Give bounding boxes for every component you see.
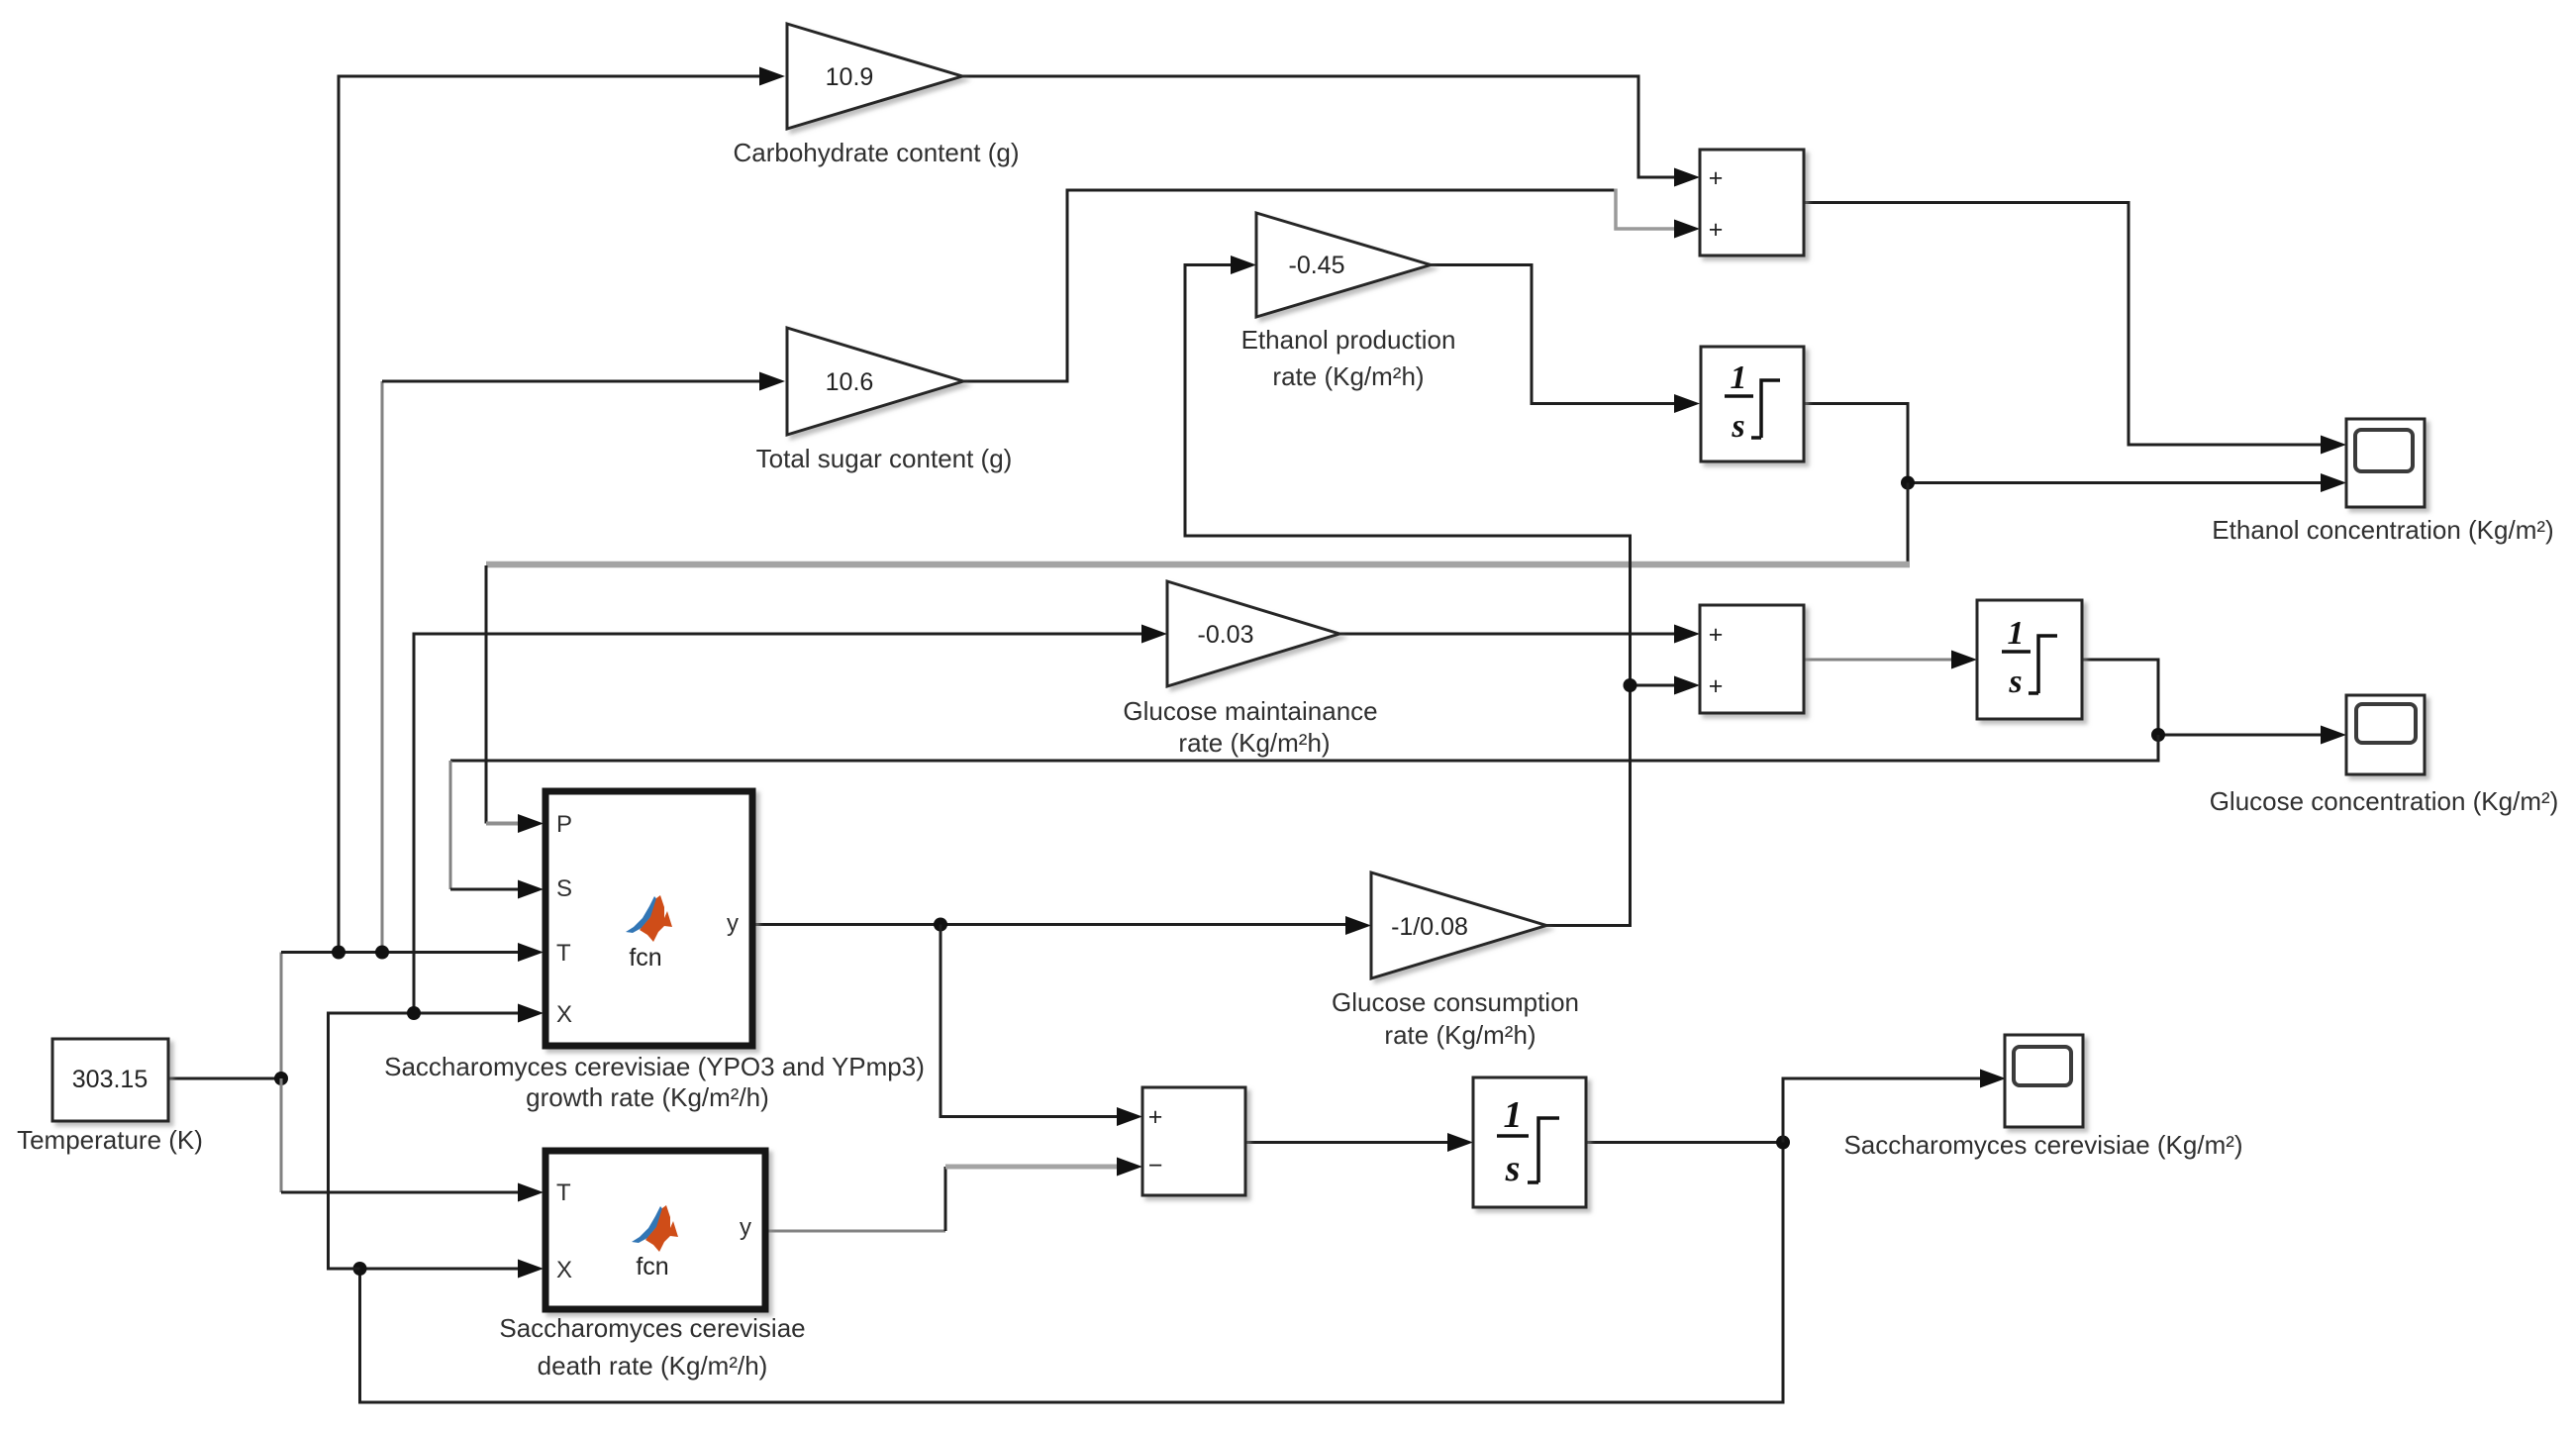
- svg-text:y: y: [740, 1214, 751, 1241]
- svg-text:Total sugar content (g): Total sugar content (g): [756, 444, 1013, 473]
- svg-text:-1/0.08: -1/0.08: [1391, 913, 1468, 941]
- node junction X net: [353, 1262, 367, 1276]
- arrow into Scope1 input1: [2321, 436, 2346, 455]
- svg-text:fcn: fcn: [636, 1253, 668, 1280]
- svg-text:Saccharomyces cerevisiae: Saccharomyces cerevisiae: [499, 1313, 805, 1343]
- wire Integrator1 output to Scope1 input2: [1804, 404, 2321, 483]
- wire Sum2 output to Integrator2: [1804, 659, 1951, 662]
- wire T up to gain 10.9 input: [339, 76, 759, 953]
- scope SC3 saccharomyces: [2005, 1035, 2083, 1127]
- wire fcn2 y output to Sum3 minus: [765, 1230, 945, 1233]
- svg-text:Saccharomyces cerevisiae (YPO3: Saccharomyces cerevisiae (YPO3 and YPmp3…: [384, 1052, 925, 1081]
- node T junction at constant output: [274, 1072, 288, 1085]
- gain 10.6 Total sugar content: [787, 328, 963, 435]
- svg-text:fcn: fcn: [629, 944, 661, 972]
- wire to Sum2 input2: [1631, 684, 1675, 687]
- svg-text:10.6: 10.6: [826, 368, 874, 396]
- svg-text:1: 1: [1731, 359, 1747, 396]
- arrow into -0.03: [1141, 625, 1167, 644]
- svg-text:+: +: [1148, 1103, 1163, 1131]
- node junction X/-0.03: [407, 1006, 421, 1020]
- arrow into gain 10.6: [759, 372, 785, 391]
- wire Integrator2 output to Scope3: [2082, 660, 2321, 735]
- svg-text:+: +: [1709, 164, 1724, 192]
- node junction T/10.6: [375, 946, 389, 960]
- wire Sum3 output to Integrator3: [1245, 1141, 1447, 1144]
- svg-text:S: S: [556, 875, 572, 902]
- matlab logo U1: [626, 895, 672, 942]
- svg-text:1: 1: [2008, 615, 2025, 652]
- svg-text:Carbohydrate content (g): Carbohydrate content (g): [733, 138, 1019, 167]
- wire gain 10.9 output to Sum1 input1: [962, 76, 1674, 177]
- wire junction X to fcn2 X: [360, 1268, 519, 1271]
- svg-text:10.9: 10.9: [826, 63, 874, 91]
- svg-text:s: s: [1731, 408, 1744, 445]
- svg-text:T: T: [556, 940, 571, 967]
- wire Sum1 output to Scope1 input1: [1804, 203, 2321, 446]
- arrow into gain 10.9: [759, 67, 785, 86]
- sum S2 (glucose): [1700, 605, 1804, 713]
- scope SC2 glucose: [2346, 695, 2425, 774]
- integrator I3 (biomass): [1473, 1077, 1586, 1207]
- fcn block U1 growth rate: [545, 791, 752, 1046]
- arrow into -1/0.08: [1345, 916, 1371, 935]
- svg-text:s: s: [2008, 664, 2022, 700]
- svg-text:Glucose concentration (Kg/m²): Glucose concentration (Kg/m²): [2210, 786, 2559, 816]
- svg-text:P: P: [556, 811, 572, 838]
- node junction T/10.9: [332, 946, 346, 960]
- wire X feedback from integrator3 junction down and left: [360, 1143, 1784, 1403]
- node junction glucose concentration: [2151, 728, 2165, 742]
- wire ethanol feedback to fcn1 P: [1907, 483, 1910, 563]
- scope SC1 ethanol: [2346, 419, 2425, 507]
- wire -0.03 output to Sum2 input1: [1339, 633, 1674, 636]
- svg-text:T: T: [556, 1179, 571, 1206]
- arrow into Scope3: [2321, 726, 2346, 745]
- svg-text:rate (Kg/m²h): rate (Kg/m²h): [1384, 1020, 1536, 1050]
- arrow into Sum2 input1: [1674, 625, 1700, 644]
- arrow into Integrator2: [1951, 651, 1977, 669]
- arrow into Scope1 input2: [2321, 473, 2346, 492]
- svg-text:s: s: [1505, 1148, 1521, 1189]
- svg-text:Glucose maintainance: Glucose maintainance: [1123, 696, 1377, 726]
- svg-text:Temperature (K): Temperature (K): [17, 1125, 203, 1155]
- matlab logo U2: [632, 1205, 678, 1252]
- svg-text:rate (Kg/m²h): rate (Kg/m²h): [1272, 361, 1424, 391]
- wire growth rate down to Sum3 plus: [941, 925, 1117, 1117]
- svg-text:Ethanol concentration (Kg/m²): Ethanol concentration (Kg/m²): [2212, 515, 2553, 545]
- wire T up to gain 10.6 input: [381, 381, 384, 953]
- svg-text:growth rate (Kg/m²/h): growth rate (Kg/m²/h): [526, 1082, 769, 1112]
- svg-text:X: X: [556, 1257, 572, 1283]
- svg-text:death rate (Kg/m²/h): death rate (Kg/m²/h): [538, 1351, 768, 1381]
- gain -1/0.08 Glucose consumption rate: [1371, 872, 1546, 978]
- arrow into -0.45: [1231, 256, 1256, 274]
- arrow into Scope4: [1980, 1070, 2006, 1088]
- wire gain 10.6 output up and over to Sum1 input2: [963, 190, 1616, 381]
- arrow into fcn1 S: [518, 880, 544, 899]
- fcn block U2 death rate: [545, 1151, 765, 1309]
- arrow into fcn2 X: [518, 1260, 544, 1279]
- wire T main: constant to junction: [168, 1077, 281, 1080]
- arrow into Sum3 plus: [1117, 1107, 1142, 1126]
- node junction consumption/Sum2: [1624, 678, 1637, 692]
- arrow into fcn2 T: [518, 1183, 544, 1202]
- svg-text:+: +: [1709, 216, 1724, 244]
- sum S3 (biomass): [1142, 1087, 1245, 1195]
- arrow into fcn1 T: [518, 943, 544, 962]
- arrow into fcn1 X: [518, 1004, 544, 1023]
- svg-text:-0.03: -0.03: [1198, 621, 1254, 649]
- wire X to fcn1 X: [329, 1013, 519, 1269]
- gain 10.9 Carbohydrate content: [787, 24, 962, 129]
- arrow into Sum1 input1: [1674, 168, 1700, 187]
- svg-text:Saccharomyces cerevisiae (Kg/m: Saccharomyces cerevisiae (Kg/m²): [1843, 1130, 2242, 1160]
- arrow into Integrator1: [1674, 394, 1700, 413]
- svg-text:Glucose consumption: Glucose consumption: [1332, 987, 1579, 1017]
- svg-text:-0.45: -0.45: [1289, 252, 1345, 279]
- svg-text:−: −: [1148, 1152, 1163, 1179]
- node junction saccharomyces: [1776, 1136, 1790, 1150]
- sum S1 (ethanol): [1700, 150, 1804, 256]
- arrow into Sum2 input2: [1674, 676, 1700, 695]
- arrow into Sum1 input2: [1674, 220, 1700, 239]
- node junction ethanol concentration: [1901, 476, 1915, 490]
- svg-text:1: 1: [1504, 1094, 1523, 1136]
- integrator I1 (ethanol): [1701, 347, 1804, 461]
- wire Integrator3 output to junction: [1586, 1141, 1783, 1144]
- integrator I2 (glucose): [1977, 600, 2082, 719]
- wire junction up to Scope4: [1783, 1078, 1980, 1143]
- svg-text:+: +: [1709, 621, 1724, 649]
- wire glucose consumption: -1/0.08 output up to corner: [1185, 265, 1631, 926]
- wire T down to fcn2 T: [280, 1078, 283, 1192]
- wire X up to -0.03 gain input: [414, 634, 1141, 1013]
- svg-text:303.15: 303.15: [72, 1066, 148, 1093]
- node junction growth rate: [934, 918, 947, 932]
- arrow into Sum3 minus: [1117, 1158, 1142, 1177]
- svg-text:y: y: [727, 910, 739, 937]
- constant 303.15 Temperature: [52, 1039, 168, 1121]
- arrow into fcn1 P: [518, 814, 544, 833]
- svg-text:X: X: [556, 1001, 572, 1028]
- wire -0.45 output to Integrator1: [1431, 265, 1674, 404]
- arrow into Integrator3: [1447, 1133, 1473, 1152]
- wire T riser to fcn1 T: [280, 953, 283, 1079]
- gain -0.45 Ethanol production rate: [1256, 213, 1431, 317]
- gain -0.03 Glucose maintainance rate: [1167, 581, 1339, 686]
- svg-text:rate (Kg/m²h): rate (Kg/m²h): [1178, 728, 1330, 758]
- wire glucose feedback to fcn1 S: [450, 735, 2158, 761]
- wire fcn1 y output to -1/0.08 input: [752, 923, 1345, 926]
- svg-text:+: +: [1709, 672, 1724, 700]
- svg-text:Ethanol production: Ethanol production: [1241, 325, 1456, 355]
